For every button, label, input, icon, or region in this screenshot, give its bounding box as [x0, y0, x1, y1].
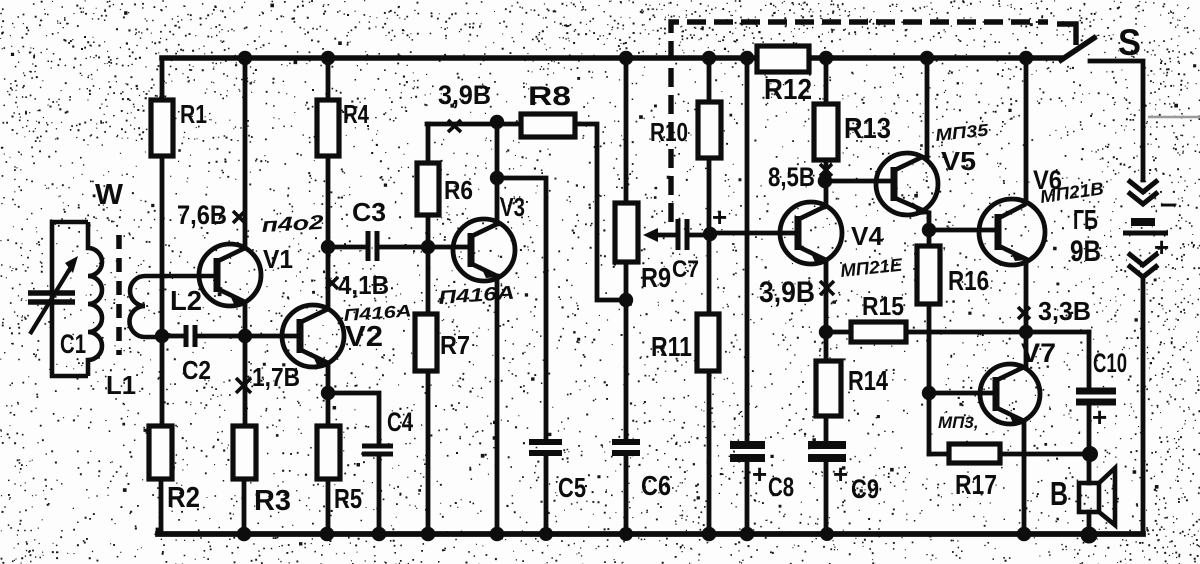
- svg-text:C5: C5: [558, 472, 586, 503]
- svg-text:R6: R6: [444, 175, 473, 205]
- svg-text:3,9В: 3,9В: [438, 80, 491, 110]
- svg-text:4,1В: 4,1В: [338, 270, 389, 300]
- svg-text:R8: R8: [528, 81, 571, 111]
- svg-text:п4о2: п4о2: [261, 212, 324, 237]
- svg-text:3,3В: 3,3В: [1038, 296, 1091, 326]
- svg-text:L2: L2: [170, 285, 202, 316]
- svg-text:8,5В: 8,5В: [768, 162, 815, 192]
- svg-text:W: W: [95, 179, 124, 211]
- svg-text:+: +: [1092, 402, 1107, 432]
- svg-text:–: –: [1160, 187, 1177, 220]
- svg-text:C2: C2: [182, 355, 211, 385]
- svg-text:+: +: [752, 459, 767, 489]
- svg-text:V2: V2: [345, 321, 383, 353]
- svg-text:C7: C7: [672, 256, 699, 283]
- svg-text:ГБ: ГБ: [1073, 204, 1098, 235]
- svg-text:C10: C10: [1093, 348, 1127, 378]
- svg-text:V5: V5: [941, 146, 976, 176]
- svg-text:1,7В: 1,7В: [252, 362, 300, 392]
- svg-text:3,9В: 3,9В: [759, 276, 815, 309]
- svg-text:R10: R10: [650, 117, 688, 147]
- svg-text:+: +: [712, 202, 727, 232]
- svg-text:МП3,: МП3,: [938, 413, 979, 432]
- svg-text:В: В: [1050, 475, 1068, 512]
- svg-text:C6: C6: [641, 470, 671, 501]
- svg-text:C3: C3: [352, 197, 386, 227]
- svg-text:9В: 9В: [1070, 235, 1101, 268]
- svg-text:+: +: [1154, 232, 1169, 262]
- svg-text:C9: C9: [851, 474, 879, 504]
- svg-text:C1: C1: [60, 329, 86, 359]
- svg-text:R12: R12: [764, 74, 812, 106]
- svg-text:+: +: [833, 459, 848, 489]
- svg-text:R17: R17: [955, 469, 997, 500]
- svg-text:L1: L1: [106, 370, 136, 400]
- svg-text:V3: V3: [500, 192, 525, 222]
- svg-text:V7: V7: [1021, 338, 1056, 368]
- svg-text:R3: R3: [254, 485, 291, 517]
- svg-text:V1: V1: [263, 244, 293, 274]
- svg-text:S: S: [1118, 22, 1141, 63]
- svg-text:R16: R16: [948, 265, 989, 296]
- svg-text:C4: C4: [387, 407, 413, 437]
- svg-text:R1: R1: [180, 99, 207, 129]
- svg-text:R2: R2: [167, 482, 200, 514]
- svg-text:R15: R15: [862, 291, 904, 321]
- svg-text:R9: R9: [641, 262, 671, 293]
- svg-text:V4: V4: [851, 221, 884, 251]
- svg-text:R13: R13: [844, 113, 891, 145]
- svg-text:R11: R11: [651, 331, 692, 362]
- svg-text:R14: R14: [848, 365, 888, 396]
- svg-text:C8: C8: [768, 472, 794, 502]
- svg-text:R4: R4: [343, 99, 369, 129]
- svg-text:R5: R5: [334, 483, 362, 514]
- svg-text:7,6В: 7,6В: [177, 200, 227, 230]
- svg-text:R7: R7: [440, 330, 470, 360]
